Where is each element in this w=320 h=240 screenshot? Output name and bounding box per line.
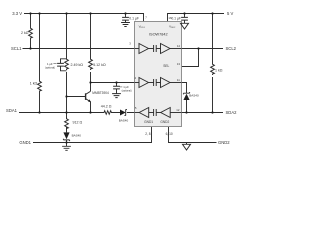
capacitor C 1uF optional 1 bbox=[57, 63, 64, 66]
svg-text:GND1: GND1 bbox=[19, 140, 31, 145]
wire 0.1uF cap right bbox=[184, 14, 186, 24]
wire channel2 input bbox=[91, 82, 135, 84]
svg-text:1 µF: 1 µF bbox=[123, 85, 129, 89]
svg-text:1 µF: 1 µF bbox=[47, 62, 53, 66]
node dots bbox=[29, 12, 213, 143]
svg-text:GND2: GND2 bbox=[160, 120, 169, 124]
svg-text:MMBT3904: MMBT3904 bbox=[92, 91, 109, 95]
transistor Q1 MMBT3904 bbox=[67, 91, 91, 112]
diode D3 BAS40 vertical up (channel 2 out) bbox=[183, 92, 189, 100]
wire SCL2 rail bbox=[182, 48, 224, 50]
capacitor C 0.1uF right bbox=[181, 17, 188, 20]
wire GND2 rail bbox=[169, 127, 217, 143]
wire R-5.12k collector column bbox=[90, 14, 92, 92]
svg-text:SDA1: SDA1 bbox=[6, 108, 18, 113]
svg-text:ISOW7842: ISOW7842 bbox=[149, 33, 168, 37]
diode D1 BAS40 on SDA1 (horizontal) bbox=[120, 110, 127, 116]
svg-text:12: 12 bbox=[176, 108, 180, 112]
channel 2 buffers bbox=[135, 78, 182, 88]
svg-text:GND2: GND2 bbox=[218, 140, 230, 145]
wire R-1k right column bbox=[212, 14, 214, 113]
svg-text:3.3 V: 3.3 V bbox=[12, 11, 22, 16]
capacitor C 1uF optional 2 bbox=[113, 86, 120, 89]
wire SDA1 rail bbox=[19, 112, 135, 114]
resistor R 2.49k bbox=[65, 58, 69, 70]
wire 1uF optional cap 1 bbox=[61, 59, 67, 71]
channel 3 buffers (reverse) bbox=[135, 108, 182, 118]
wire GND2 triangle stem bbox=[186, 143, 188, 145]
svg-text:13: 13 bbox=[177, 62, 181, 66]
svg-text:912 Ω: 912 Ω bbox=[73, 121, 83, 125]
ground triangle under 0.1uF right bbox=[181, 23, 189, 29]
svg-text:SDA2: SDA2 bbox=[226, 110, 238, 115]
svg-text:44.2 Ω: 44.2 Ω bbox=[101, 104, 112, 108]
resistor R 2k bbox=[29, 27, 33, 39]
svg-text:0.1 µF: 0.1 µF bbox=[129, 16, 139, 20]
svg-text:2.49 kΩ: 2.49 kΩ bbox=[71, 63, 84, 67]
svg-text:5.12 kΩ: 5.12 kΩ bbox=[93, 63, 106, 67]
ground under optional cap 2 bbox=[112, 94, 121, 98]
wire channel2 output diode branch bbox=[182, 83, 187, 113]
svg-text:5 V: 5 V bbox=[227, 11, 233, 16]
svg-text:BAS40: BAS40 bbox=[189, 93, 199, 97]
resistor R 1k right bbox=[211, 63, 215, 75]
svg-text:BAS40: BAS40 bbox=[72, 134, 82, 138]
svg-text:(optional): (optional) bbox=[122, 90, 132, 93]
svg-text:(optional): (optional) bbox=[45, 66, 55, 69]
svg-text:SCL1: SCL1 bbox=[11, 46, 22, 51]
ground triangle GND2 rail bbox=[183, 144, 191, 150]
wire SEL loop bbox=[182, 49, 199, 67]
resistor R 912 bbox=[65, 118, 69, 130]
wire R-1k column bbox=[39, 14, 41, 113]
svg-text:1 kΩ: 1 kΩ bbox=[215, 68, 223, 72]
wire SCL1 rail bbox=[23, 48, 135, 50]
wire R-2k column bbox=[30, 14, 32, 49]
resistor R 1k left bbox=[38, 80, 42, 92]
IC body U1 ISOW7842 bbox=[135, 22, 182, 127]
capacitor C 0.1uF left bbox=[122, 17, 129, 20]
wire 5V rail bbox=[168, 14, 225, 22]
svg-text:2, 8: 2, 8 bbox=[145, 132, 151, 136]
wire 0.1uF cap left bbox=[125, 14, 127, 23]
wire 1uF optional cap 2 bbox=[116, 83, 118, 94]
channel 1 buffers bbox=[135, 44, 182, 54]
svg-text:2 kΩ: 2 kΩ bbox=[21, 31, 29, 35]
svg-text:6, 10: 6, 10 bbox=[166, 132, 173, 136]
wire SDA2 rail bbox=[182, 112, 224, 114]
svg-text:11: 11 bbox=[177, 78, 180, 82]
svg-text:16: 16 bbox=[168, 16, 172, 20]
svg-text:BAS40: BAS40 bbox=[119, 118, 129, 122]
wire base column bbox=[66, 14, 68, 147]
svg-text:GND1: GND1 bbox=[144, 120, 153, 124]
wire 3.3V rail bbox=[24, 14, 144, 22]
diode D2 BAS40 vertical down (to GND1) bbox=[63, 132, 69, 141]
ground under base column bbox=[62, 146, 71, 150]
svg-text:SEL: SEL bbox=[163, 64, 169, 68]
svg-text:1 kΩ: 1 kΩ bbox=[30, 81, 38, 85]
wire GND1 rail bbox=[33, 127, 152, 143]
svg-text:SCL2: SCL2 bbox=[226, 46, 237, 51]
svg-text:0.1 µF: 0.1 µF bbox=[171, 16, 181, 20]
ground under 0.1uF left bbox=[121, 23, 130, 27]
resistor R 44.2 horizontal bbox=[103, 111, 112, 115]
resistor R 5.12k bbox=[89, 58, 93, 70]
svg-text:14: 14 bbox=[177, 44, 181, 48]
